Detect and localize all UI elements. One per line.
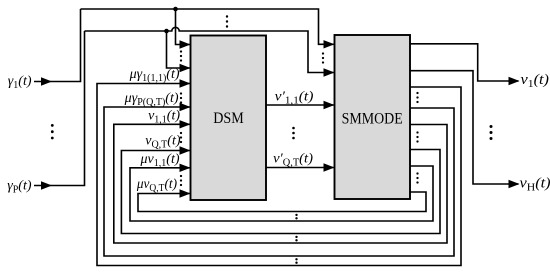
wire output nu_1 xyxy=(410,44,520,85)
ellipsis SMMODE outputs 3-4 xyxy=(416,92,418,103)
wire gamma_P input xyxy=(34,31,85,190)
svg-text:γP(t): γP(t) xyxy=(7,178,32,195)
input label gamma_P(t) xyxy=(7,178,32,195)
label nu_1,1(t) xyxy=(148,108,180,125)
junction dot B xyxy=(164,29,169,34)
ellipsis SMMODE outputs 5-6 xyxy=(416,131,418,142)
block SMMODE xyxy=(335,35,411,199)
ellipsis between nu-prime wires xyxy=(292,127,295,140)
label nu_Q,T(t) xyxy=(145,134,181,151)
svg-text:DSM: DSM xyxy=(213,110,244,127)
svg-text:μγP(Q,T)(t): μγP(Q,T)(t) xyxy=(124,91,179,108)
svg-text:ν1,1(t): ν1,1(t) xyxy=(148,108,180,125)
block DSM xyxy=(191,36,267,201)
label mu gamma_P(Q,T)(t) xyxy=(124,91,179,108)
svg-text:νQ,T(t): νQ,T(t) xyxy=(145,134,181,151)
wire feedback loop nu_Q,T : SMMODE out, down, bottom, up, into DSM xyxy=(121,146,440,233)
wire branch dot A to DSM xyxy=(176,9,191,49)
wire branch dot B to DSM xyxy=(167,31,191,72)
ellipsis DSM inputs 5-6 xyxy=(180,132,182,143)
ellipsis between top lines A and B xyxy=(226,15,228,27)
ellipsis SMMODE outputs 7-8 xyxy=(416,172,418,183)
wire feedback loop mu gamma_P(Q,T) : SMMODE out, down, bottom, up, into DSM xyxy=(104,103,454,256)
wire feedback loop nu_1,1 : SMMODE out, down, bottom, up, into DSM xyxy=(114,120,447,243)
label nu'_Q,T(t) xyxy=(273,151,313,169)
ellipsis DSM inputs 3-4 xyxy=(180,92,182,103)
wire gamma_1 input xyxy=(34,9,81,86)
wire nu'_1,1 DSM to SMMODE xyxy=(266,101,335,109)
wire feedback loop mu nu_Q,T : SMMODE out, down, bottom, up, into DSM xyxy=(138,189,426,211)
ellipsis bottom loop pair 1 xyxy=(295,214,297,220)
ellipsis SMMODE inputs 1-2 xyxy=(322,52,324,63)
wire output nu_H xyxy=(410,71,520,189)
input label gamma_1(t) xyxy=(8,74,32,91)
svg-text:νH(t): νH(t) xyxy=(520,175,550,193)
label mu nu_1,1(t) xyxy=(140,152,180,169)
ellipsis bottom loop pair 2 xyxy=(295,236,297,242)
wire top line A into SMMODE xyxy=(81,9,335,49)
svg-text:μν1,1(t): μν1,1(t) xyxy=(140,152,180,169)
label mu nu_Q,T(t) xyxy=(136,176,178,194)
junction dot A xyxy=(173,7,178,12)
output label nu_H(t) xyxy=(520,175,550,193)
svg-text:ν1(t): ν1(t) xyxy=(521,72,549,90)
svg-text:ν′Q,T(t): ν′Q,T(t) xyxy=(273,151,313,169)
label mu gamma_1(1,1)(t) xyxy=(129,67,180,84)
ellipsis DSM inputs 7-8 xyxy=(180,175,182,186)
svg-text:ν′1,1(t): ν′1,1(t) xyxy=(275,89,314,106)
label nu'_1,1(t) xyxy=(275,89,314,106)
svg-text:SMMODE: SMMODE xyxy=(342,111,403,128)
output label nu_1(t) xyxy=(521,72,549,90)
ellipsis bottom loop pair 3 xyxy=(295,258,297,264)
ellipsis between gamma inputs xyxy=(51,124,54,139)
ellipsis between nu_1 and nu_H outputs xyxy=(490,125,493,140)
svg-text:μνQ,T(t): μνQ,T(t) xyxy=(136,176,178,194)
svg-text:μγ1(1,1)(t): μγ1(1,1)(t) xyxy=(129,67,180,84)
wire top line B with hop, into SMMODE xyxy=(85,27,335,76)
wire feedback loop mu gamma_1(1,1) : SMMODE out, down, bottom, up, into DSM xyxy=(97,79,461,265)
wire nu'_Q,T DSM to SMMODE xyxy=(266,163,335,171)
svg-text:γ1(t): γ1(t) xyxy=(8,74,32,91)
ellipsis DSM inputs 1-2 xyxy=(180,50,182,61)
wire feedback loop mu nu_1,1 : SMMODE out, down, bottom, up, into DSM xyxy=(130,164,433,221)
